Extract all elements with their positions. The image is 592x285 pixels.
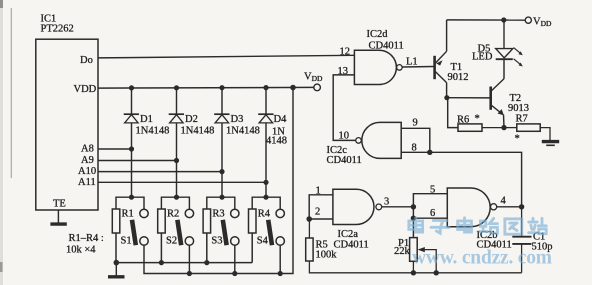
node branch4 top: [263, 195, 268, 200]
svg-text:A10: A10: [78, 166, 96, 177]
ground R7: [542, 142, 559, 146]
svg-text:R3: R3: [212, 209, 224, 220]
wire node3 (IC2a out to pin5/6/P1): [382, 206, 414, 208]
node pin1-pin2-R5: [306, 216, 312, 222]
svg-text:22k: 22k: [394, 246, 411, 257]
bubble IC2b output: [491, 204, 497, 210]
svg-text:TE: TE: [53, 199, 66, 210]
resistor R4: [249, 209, 257, 263]
node railA R2: [159, 260, 164, 265]
svg-text:S4: S4: [257, 236, 269, 247]
svg-text:IC2d: IC2d: [367, 29, 389, 40]
LED D5: [496, 20, 513, 59]
svg-text:1N4148: 1N4148: [226, 126, 260, 137]
node VDD-railB: [290, 85, 296, 91]
svg-text:13: 13: [338, 66, 349, 77]
resistor R6: [458, 124, 504, 131]
svg-text:CD4011: CD4011: [334, 240, 369, 251]
SCAN_ARTIFACT: [10, 8, 12, 178]
switch S2: [177, 209, 193, 245]
capacitor C1 510p: [512, 207, 531, 273]
node A11-D4: [263, 180, 268, 185]
potentiometer P1 22k: [410, 238, 437, 273]
svg-text:R6: R6: [457, 115, 469, 126]
svg-text:4: 4: [501, 196, 507, 207]
node railB S2: [187, 271, 192, 276]
wire IC2b pin6: [413, 217, 447, 219]
bubble IC2a output: [376, 204, 382, 210]
svg-text:R7: R7: [516, 114, 528, 125]
svg-text:8: 8: [412, 143, 417, 154]
svg-text:9013: 9013: [508, 103, 529, 114]
switch S3: [223, 209, 239, 245]
svg-text:VDD: VDD: [74, 84, 97, 95]
wire TE ground: [57, 210, 59, 223]
node 3 out: [411, 204, 416, 209]
svg-text:S2: S2: [166, 236, 177, 247]
svg-text:10: 10: [339, 131, 350, 142]
node bar branch4: [252, 197, 280, 209]
svg-text:2: 2: [315, 207, 320, 218]
node VDD-D3: [219, 85, 224, 90]
node railB S4: [278, 271, 283, 276]
bubble IC2c output: [356, 138, 362, 144]
wire top VDD rail: [447, 19, 526, 21]
terminal VDD top circle: [525, 17, 531, 23]
node A8-D1: [129, 146, 134, 151]
wire A8: [98, 148, 132, 150]
wire IC2c pin9: [401, 128, 430, 152]
wire IC2a pin1: [309, 195, 333, 219]
transistor T2 9013: [491, 79, 504, 116]
op-amp IC2d CD4011 gate: [354, 50, 396, 84]
node pin6: [411, 216, 416, 221]
switch S1: [132, 209, 148, 245]
wire S2 drop: [188, 245, 190, 273]
svg-text:LED: LED: [472, 52, 493, 63]
svg-text:10k ×4: 10k ×4: [66, 245, 96, 256]
wire branch4 vertical: [265, 88, 267, 114]
svg-text:CD4011: CD4011: [369, 41, 404, 52]
wire T1 collector to T2 base: [447, 97, 491, 99]
svg-text:PT2262: PT2262: [41, 24, 74, 35]
diode D4 1N4148: [258, 114, 273, 123]
transistor T1 9012: [435, 51, 447, 82]
svg-text:1: 1: [316, 186, 321, 197]
wire IC2c out to IC2d pin13: [333, 75, 356, 140]
wire down to R6: [448, 98, 458, 128]
svg-text:D3: D3: [231, 114, 244, 125]
wire A10: [98, 171, 222, 173]
wire S3 drop: [234, 245, 236, 273]
node VDD-D1: [129, 85, 134, 90]
node branch1 top: [129, 195, 134, 200]
svg-text:Do: Do: [80, 55, 93, 66]
wire T2 emitter down: [503, 115, 506, 128]
node A10-D3: [219, 169, 224, 174]
op-amp IC2c CD4011 gate (mirrored): [362, 122, 401, 158]
node P1 wiper rail: [434, 270, 439, 275]
svg-text:1N4148: 1N4148: [136, 126, 170, 137]
wire branch2 vertical: [176, 88, 178, 114]
svg-text:R2: R2: [167, 209, 179, 220]
node railA gnd: [114, 260, 120, 266]
IC1 PT2262 box: [36, 39, 98, 210]
wire IC2b pin4 output: [497, 206, 522, 208]
wire VDD rail: [98, 86, 314, 89]
arrow P1 wiper: [418, 247, 425, 252]
resistor R5 100k: [306, 219, 522, 273]
ground under rail A: [115, 263, 117, 276]
svg-text:VDD: VDD: [533, 17, 552, 29]
node bar branch3: [207, 197, 235, 209]
svg-text:CD4011: CD4011: [327, 155, 362, 166]
node railB S3: [232, 271, 237, 276]
node T1 coll: [444, 95, 449, 100]
bubble IC2d output: [397, 65, 403, 71]
svg-text:R1: R1: [122, 209, 134, 220]
svg-text:*: *: [515, 134, 520, 145]
svg-text:100k: 100k: [316, 250, 338, 261]
resistor R1: [112, 209, 120, 263]
svg-text:9: 9: [413, 118, 418, 129]
wire T1 emitter to top rail: [446, 20, 448, 51]
wire IC2a pin2: [309, 218, 333, 220]
svg-text:5: 5: [430, 185, 435, 196]
diode D3 1N4148: [214, 114, 229, 123]
svg-text:D2: D2: [185, 114, 198, 125]
svg-text:1N4148: 1N4148: [181, 126, 215, 137]
node pin4-C1: [519, 204, 524, 209]
switch S4: [268, 209, 284, 245]
op-amp IC2a CD4011 gate: [333, 189, 374, 224]
resistor R2: [158, 209, 166, 263]
node VDD-D2: [174, 85, 179, 90]
LED光 arrow 1: [514, 48, 523, 56]
diode D2 1N4148: [169, 114, 184, 123]
svg-text:D4: D4: [274, 114, 288, 125]
svg-text:4148: 4148: [266, 136, 287, 147]
diode D1 1N4148: [124, 114, 139, 123]
wire L1 IC2d out to T1 base: [402, 66, 434, 69]
svg-text:www. cndzz. com: www. cndzz. com: [412, 248, 552, 269]
svg-text:L1: L1: [406, 57, 418, 68]
node branch3 top: [219, 195, 224, 200]
svg-text:VDD: VDD: [304, 72, 323, 84]
scan edge band: [0, 0, 3, 285]
wire branch1 vertical (VDD-D1-A8-node1): [131, 88, 133, 114]
svg-text:R1–R4 :: R1–R4 :: [69, 233, 104, 244]
wire A11: [98, 181, 266, 183]
node P1 bottom: [411, 270, 416, 275]
node VDD-D4: [263, 85, 268, 90]
svg-text:A8: A8: [81, 144, 94, 155]
wire T1 collector down: [446, 83, 448, 98]
node bar branch1: [116, 197, 144, 209]
svg-text:12: 12: [340, 47, 351, 58]
wire T2 collector up to LED: [503, 59, 505, 78]
wire A9: [98, 160, 177, 162]
svg-text:S1: S1: [121, 236, 132, 247]
LED光 arrow 2: [514, 59, 523, 67]
svg-text:R4: R4: [258, 209, 271, 220]
wire S4 drop: [279, 245, 281, 273]
svg-text:*: *: [475, 114, 480, 125]
node branch2 top: [174, 195, 179, 200]
op-amp IC2b CD4011 gate: [447, 188, 490, 227]
wire Do to IC2d pin12: [98, 55, 354, 58]
node top rail LED: [501, 17, 506, 22]
resistor R7: [504, 124, 550, 140]
wire switch common rail B to VDD: [144, 88, 293, 274]
node bar branch2: [161, 197, 189, 209]
watermark 电子电路图站: [409, 218, 546, 234]
svg-text:A9: A9: [81, 155, 94, 166]
resistor R3: [203, 209, 211, 263]
wire branch3 vertical: [221, 88, 223, 114]
node R6-R7-T2e: [501, 125, 506, 130]
svg-text:IC2a: IC2a: [338, 229, 359, 240]
terminal VDD mid circle: [314, 84, 321, 91]
svg-text:3: 3: [384, 196, 389, 207]
node A9-D2: [174, 158, 179, 163]
svg-text:A11: A11: [78, 177, 96, 188]
wire ground rail A (R bottoms): [116, 262, 252, 264]
svg-text:D1: D1: [140, 114, 153, 125]
node railA R3: [204, 260, 209, 265]
svg-text:S3: S3: [211, 236, 222, 247]
svg-text:9012: 9012: [448, 72, 469, 83]
svg-text:6: 6: [430, 208, 435, 219]
wire IC2b out to IC2c inputs: [401, 152, 521, 207]
node pin8-9: [427, 150, 432, 155]
